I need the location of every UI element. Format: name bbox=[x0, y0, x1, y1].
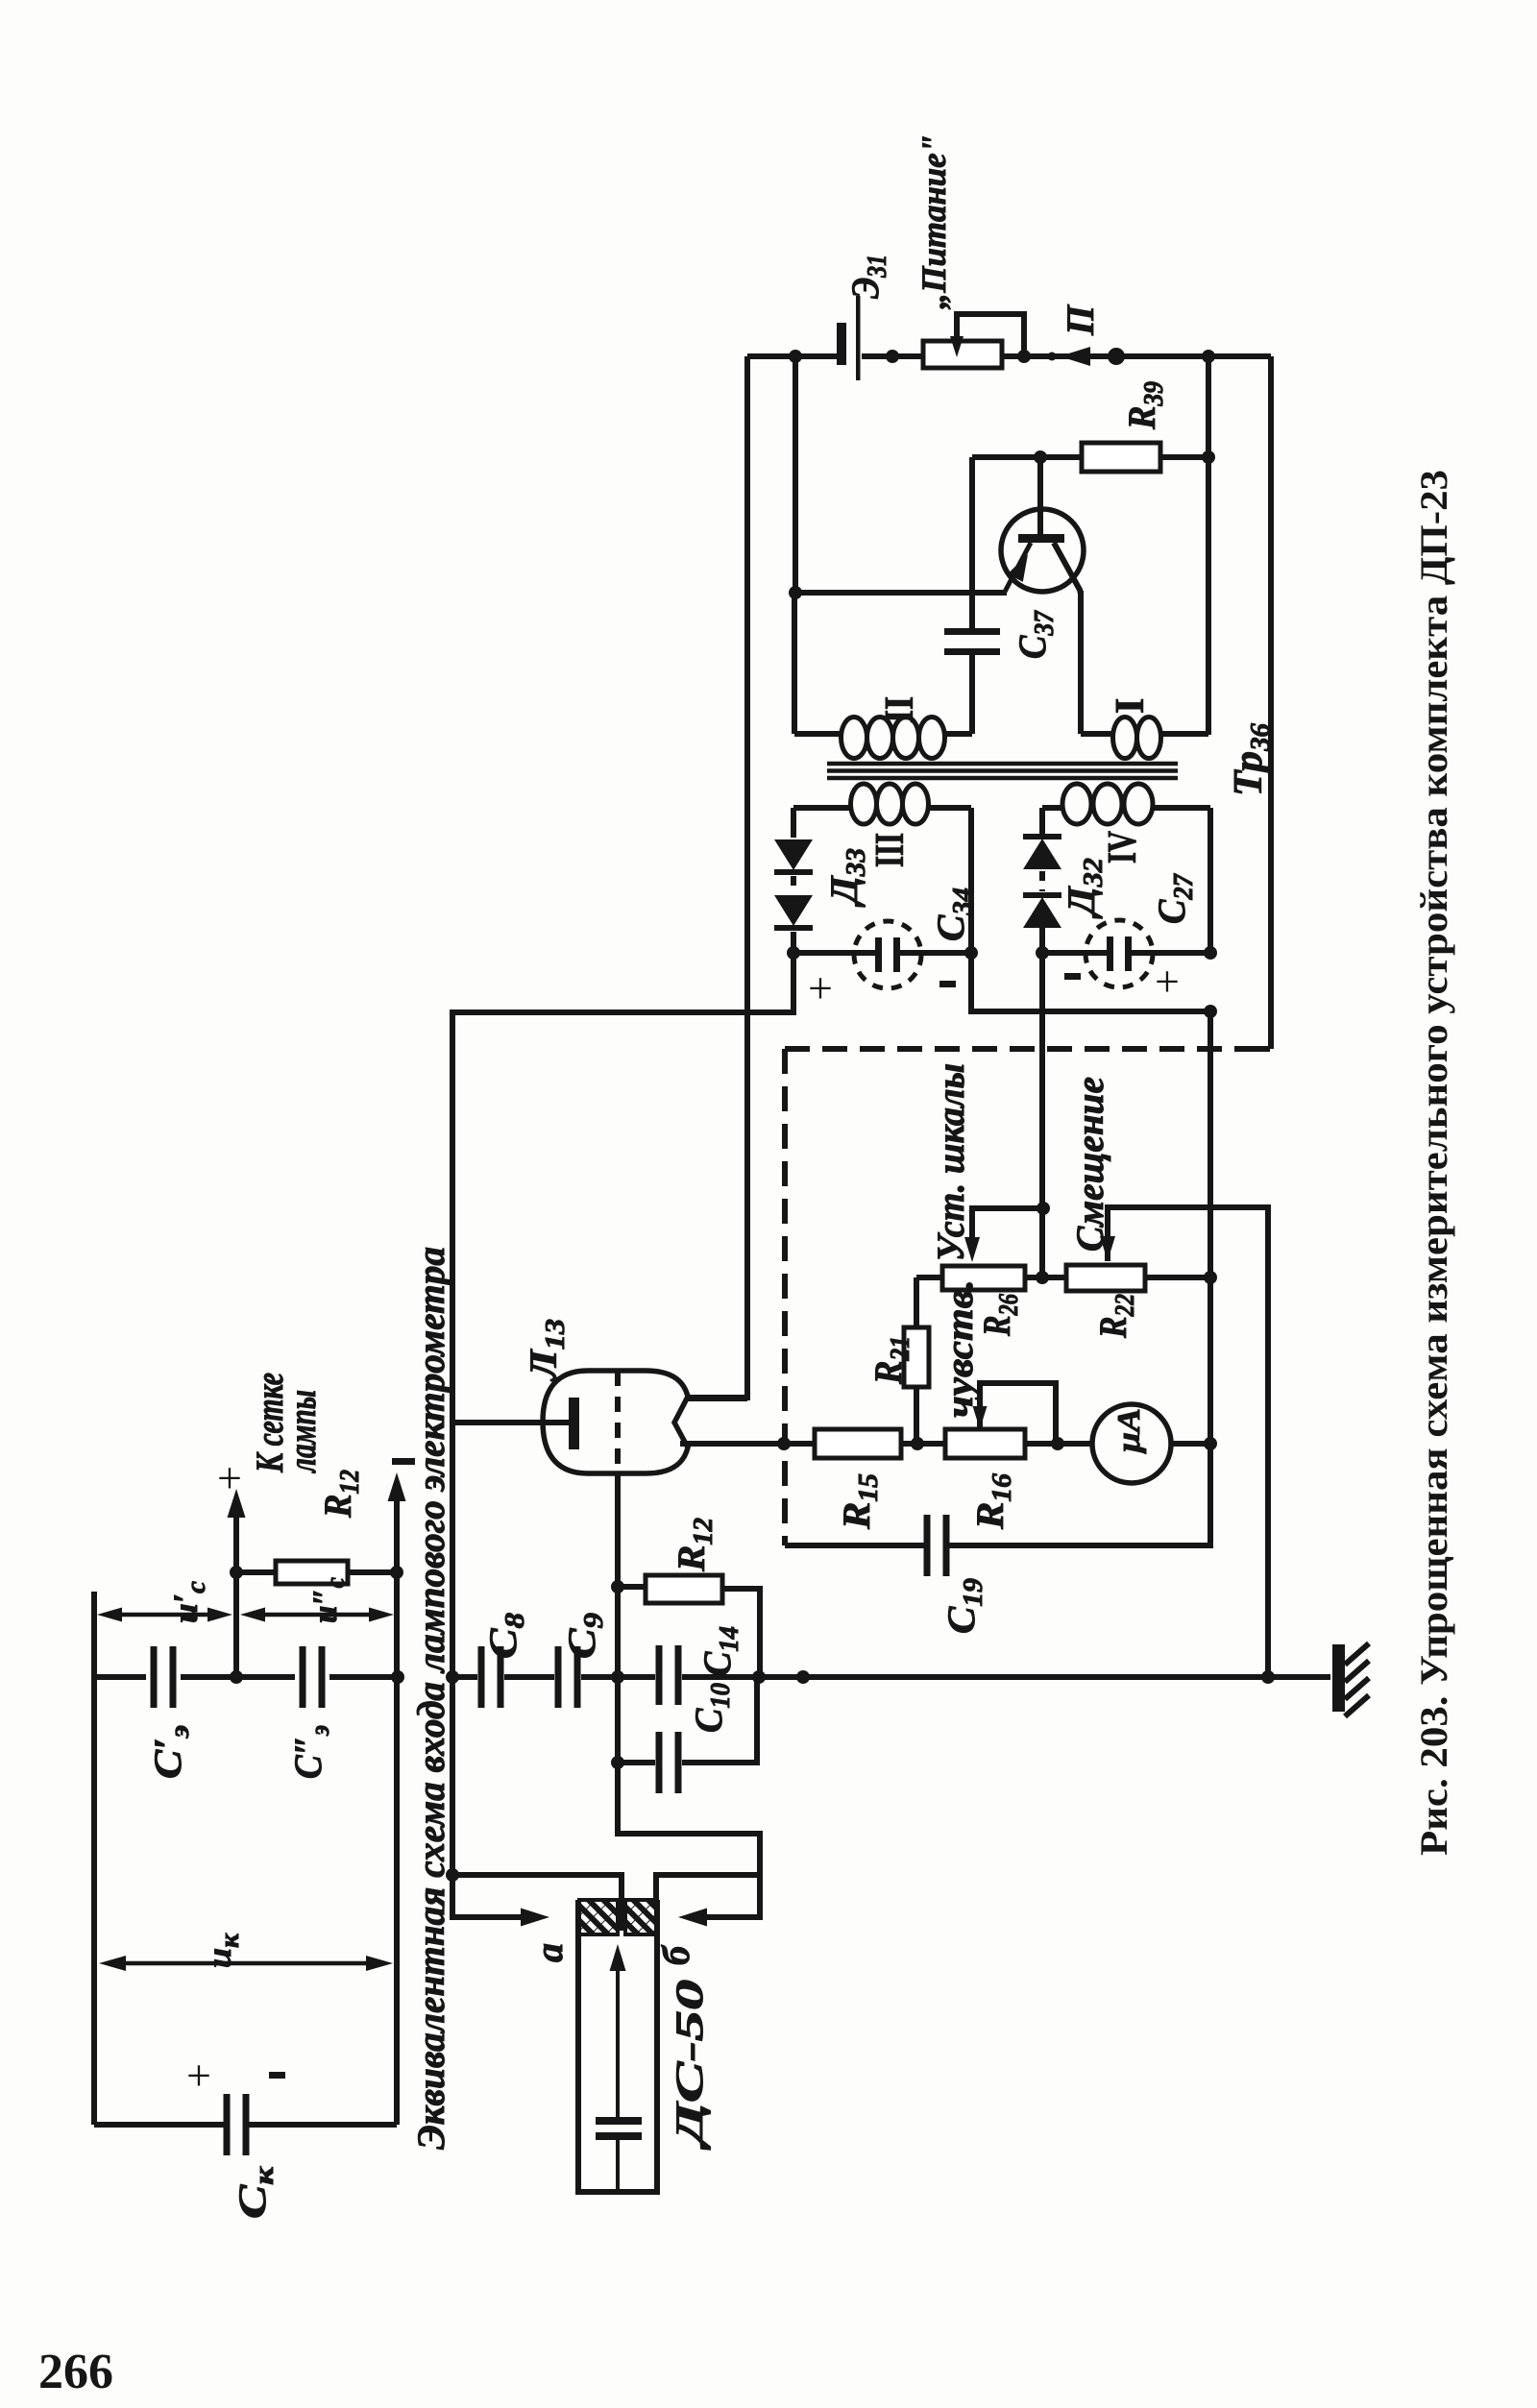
wire C10 bottom link to sensor bbox=[618, 1763, 760, 1875]
transformer winding I bbox=[1081, 731, 1112, 737]
node C34 plus bbox=[787, 946, 800, 960]
wire cathode line bbox=[686, 1441, 815, 1447]
svg-text:μА: μА bbox=[1111, 1408, 1147, 1454]
wire equivalent right rail bbox=[394, 1484, 400, 2125]
wire base lead of transistor bbox=[1037, 457, 1043, 534]
wire Уст.шкалы wiper tie bbox=[972, 1208, 1043, 1249]
capacitor C34 (electrolytic) bbox=[875, 937, 882, 972]
ground symbol bbox=[1332, 1644, 1345, 1712]
wire input node line with C8 C9 C14 bbox=[452, 1674, 803, 1680]
wire right outer vertical (bus to dashed box corner) bbox=[1268, 356, 1274, 1049]
ДС-50 body walls bbox=[578, 1900, 657, 2192]
svg-text:а: а bbox=[527, 1943, 571, 1962]
svg-text:II: II bbox=[878, 696, 922, 723]
wire winding II left vertical bbox=[792, 593, 797, 734]
capacitor C9 bbox=[555, 1646, 562, 1708]
svg-text:б: б bbox=[654, 1944, 697, 1965]
tube dashed divider bbox=[615, 1371, 621, 1473]
diode Д33 (two in series, pointing down) bbox=[774, 839, 813, 870]
switch П contact dot bbox=[1048, 353, 1057, 361]
node R39 top bus junction bbox=[1202, 350, 1215, 363]
wire anode lead (see left outer vertical) bbox=[688, 1396, 747, 1401]
capacitor C14 bbox=[656, 1645, 663, 1705]
capacitor C'э bbox=[151, 1646, 158, 1708]
ground line (main) bbox=[803, 1674, 1330, 1680]
wire C34 box bottom bbox=[971, 953, 1210, 1011]
wire C34 node line bbox=[793, 950, 971, 956]
wire grid lead bbox=[452, 1420, 569, 1425]
wire б-electrode riser bbox=[656, 1875, 760, 1901]
label uк arrow bbox=[110, 1961, 382, 1966]
svg-text:266: 266 bbox=[38, 2345, 113, 2399]
capacitor C10 bbox=[656, 1732, 663, 1793]
wire top supply bus bbox=[747, 353, 1271, 359]
wire vertical R39/winding-I right bbox=[1206, 356, 1211, 735]
svg-text:П: П bbox=[1059, 304, 1102, 336]
svg-text:ДС-50: ДС-50 bbox=[668, 1980, 711, 2151]
dashed enclosure top edge bbox=[785, 1046, 1239, 1052]
potentiometer Питание bbox=[923, 341, 1002, 368]
wiper of potentiometer bbox=[957, 314, 1024, 356]
wire cathode lead bbox=[680, 1441, 686, 1447]
transformer core bbox=[827, 764, 1178, 778]
microammeter μA bbox=[1092, 1404, 1171, 1483]
capacitor C27 (electrolytic) bbox=[1107, 936, 1113, 971]
wire a-electrode pointer bbox=[452, 1875, 534, 1917]
transformer winding IV bbox=[1042, 805, 1062, 811]
wire equivalent node line bbox=[94, 1674, 397, 1680]
label minus grid bbox=[392, 1458, 415, 1465]
wire C-junction riser to grid arrow bbox=[233, 1498, 239, 1677]
label minus C27 bbox=[1064, 973, 1081, 980]
wire winding IV left down bbox=[1039, 808, 1045, 839]
wire C34+ node to grid line bbox=[452, 953, 793, 1877]
label u"c arrow bbox=[251, 1613, 383, 1617]
tube grid bar bbox=[569, 1398, 579, 1449]
potentiometer R26 bbox=[942, 1266, 1025, 1290]
diode Д32 (two in series, pointing up) bbox=[1023, 839, 1061, 869]
svg-text:+: + bbox=[186, 2051, 211, 2100]
label minus C34 bbox=[939, 981, 956, 987]
wire C27 node line bbox=[1042, 950, 1210, 956]
wire C19 loop bbox=[785, 1444, 1210, 1545]
node grid line / input line bbox=[446, 1670, 459, 1684]
capacitor Ск bbox=[224, 2094, 231, 2155]
wire C27 node down through boxes bbox=[1208, 1011, 1213, 1444]
tube Л13 envelope bbox=[543, 1371, 688, 1473]
capacitor C37 bbox=[944, 628, 1000, 635]
ДС-50 internal capacitor bbox=[596, 2117, 642, 2125]
capacitor C"э bbox=[300, 1646, 306, 1708]
wire winding IV right down bbox=[1208, 808, 1213, 953]
svg-text:Смещение: Смещение bbox=[1068, 1077, 1111, 1252]
wire inner vertical battery+ to emitter line bbox=[793, 356, 798, 593]
resistor R39 bbox=[1082, 443, 1160, 472]
svg-text:„Питание": „Питание" bbox=[915, 134, 953, 309]
battery Э31 bbox=[837, 323, 846, 365]
transformer winding III bbox=[793, 805, 851, 811]
wire Д32 node down to R26/R22 junction bbox=[1039, 953, 1045, 1277]
svg-text:+: + bbox=[217, 1453, 242, 1502]
wire C10 branch bbox=[618, 1677, 757, 1763]
svg-text:+: + bbox=[808, 963, 833, 1012]
wire internal electrode stem with arrow bbox=[616, 1961, 620, 2117]
wire collector vertical to winding I bbox=[1078, 591, 1084, 734]
svg-text:III: III bbox=[868, 833, 913, 867]
capacitor C8 bbox=[478, 1646, 485, 1708]
resistor R12 (equivalent) bbox=[276, 1561, 348, 1584]
capacitor C19 bbox=[924, 1515, 931, 1576]
svg-text:Уст. шкалы: Уст. шкалы bbox=[929, 1063, 972, 1261]
wire equivalent box bottom with Ск bbox=[94, 2122, 397, 2128]
wire C37 branch top bbox=[972, 454, 1040, 460]
svg-text:чувств.: чувств. bbox=[938, 1279, 981, 1418]
ДС-50 electrode б (hatched) bbox=[625, 1900, 657, 1934]
resistor R21 bbox=[904, 1327, 929, 1387]
wire C37 vertical bbox=[969, 457, 975, 734]
wire winding III right down bbox=[968, 808, 974, 953]
potentiometer R16 bbox=[945, 1429, 1025, 1458]
wire R16 wiper tie bbox=[980, 1383, 1056, 1444]
transistor (oscillator) circle bbox=[1001, 509, 1084, 592]
wire to slit electrode bbox=[452, 1875, 622, 1931]
wire emitter to winding II left bbox=[795, 590, 1007, 596]
wire winding III left down bbox=[791, 808, 796, 838]
wire equivalent box left rail bbox=[91, 1592, 97, 2125]
dashed enclosure left edge bbox=[782, 1049, 788, 1545]
svg-text:лампы: лампы bbox=[281, 1390, 324, 1473]
label u'c arrow bbox=[108, 1613, 223, 1617]
node switch right junction bbox=[1108, 348, 1125, 365]
svg-text:Рис. 203. Упрощенная схема изм: Рис. 203. Упрощенная схема измерительног… bbox=[1412, 470, 1455, 1856]
transistor collector bbox=[1054, 543, 1081, 594]
potentiometer R22 bbox=[1066, 1265, 1145, 1291]
svg-text:Эквивалентная схема входа ламп: Эквивалентная схема входа лампового элек… bbox=[409, 1247, 452, 2150]
resistor R12 bbox=[646, 1575, 722, 1603]
svg-text:+: + bbox=[1155, 957, 1180, 1006]
wire б-electrode pointer bbox=[694, 1875, 760, 1917]
transistor emitter with arrow bbox=[1005, 543, 1031, 592]
node bus-left-corner junction bbox=[789, 350, 802, 363]
wire Смещение wiper tie to ground rail bbox=[1108, 1207, 1268, 1677]
transformer winding II bbox=[794, 731, 842, 737]
wire R26 left to R21 bbox=[914, 1277, 919, 1327]
wire left outer vertical (bus to tube anode) bbox=[686, 356, 747, 1398]
wire tube bottom electrode to node bbox=[615, 1473, 621, 1677]
switch П arrow bbox=[1060, 347, 1090, 366]
label minus Ск bbox=[269, 2072, 285, 2079]
svg-text:I: I bbox=[1109, 698, 1153, 714]
node Д32 bottom bbox=[1036, 946, 1049, 960]
transistor base bar bbox=[1018, 534, 1064, 543]
resistor R15 bbox=[815, 1429, 901, 1458]
